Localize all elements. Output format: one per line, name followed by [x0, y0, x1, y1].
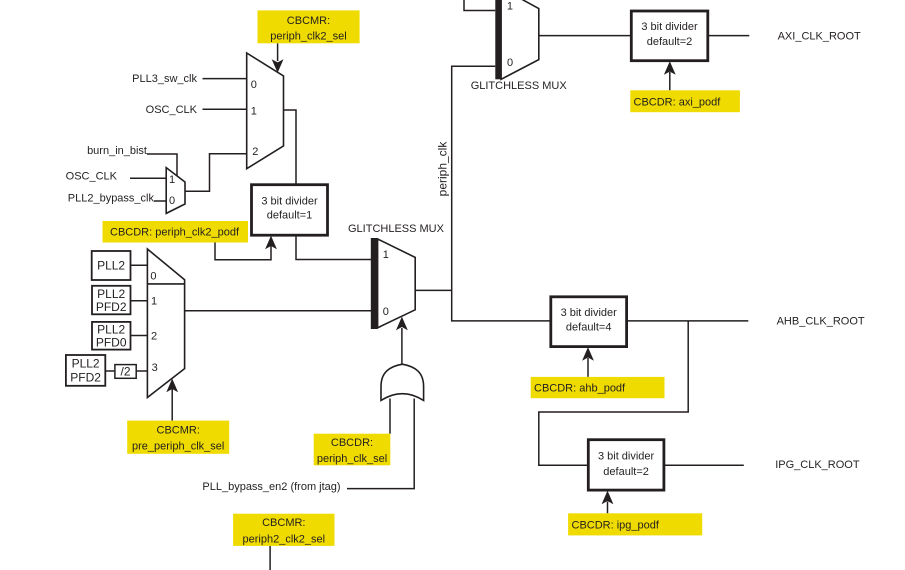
mux U5 top glitchless mux body: [501, 0, 539, 79]
svg-text:periph_clk_sel: periph_clk_sel: [317, 453, 387, 465]
wire periph2_clk2_sel select down: [269, 546, 271, 570]
svg-text:PLL3_sw_clk: PLL3_sw_clk: [132, 73, 197, 85]
svg-text:1: 1: [151, 296, 157, 308]
wire CBCDR axi_podf select arrow shaft: [669, 72, 671, 90]
svg-text:periph2_clk2_sel: periph2_clk2_sel: [243, 534, 326, 546]
divider D4 ipg_podf box: [588, 440, 664, 490]
svg-text:GLITCHLESS MUX: GLITCHLESS MUX: [348, 223, 445, 235]
wire divider periph_clk2_podf output to glitchless mux input 1: [296, 235, 371, 260]
svg-text:CBCDR:: CBCDR:: [331, 437, 373, 449]
mux U3 separator line: [147, 283, 184, 285]
wire PLL2_bypass_clk to bypass mux input 0: [154, 200, 166, 202]
arrowhead into mux U1 from CBCMR periph_clk2_sel: [272, 59, 284, 73]
svg-text:default=2: default=2: [647, 36, 693, 48]
svg-text:1: 1: [383, 249, 389, 261]
svg-text:PLL2: PLL2: [97, 322, 125, 336]
mux U4 select bar: [371, 238, 378, 329]
arrowhead into IPG divider: [602, 491, 614, 505]
svg-text:0: 0: [383, 306, 389, 318]
wire AXI divider output to AXI_CLK_ROOT: [708, 35, 750, 37]
svg-text:GLITCHLESS MUX: GLITCHLESS MUX: [471, 80, 568, 92]
label CBCDR axi_podf (yellow): [630, 90, 740, 112]
label CBCMR pre_periph_clk_sel (yellow): [127, 421, 229, 454]
svg-text:PLL_bypass_en2 (from jtag): PLL_bypass_en2 (from jtag): [202, 481, 340, 493]
wire PLL2 PFD2 to pre_periph mux input 1: [131, 300, 148, 302]
svg-text:0: 0: [251, 79, 257, 91]
svg-text:/2: /2: [120, 365, 130, 379]
arrowhead into mux U4 from OR gate: [396, 317, 408, 331]
svg-text:CBCDR: periph_clk2_podf: CBCDR: periph_clk2_podf: [110, 227, 240, 239]
svg-text:1: 1: [251, 105, 257, 117]
svg-text:AXI_CLK_ROOT: AXI_CLK_ROOT: [778, 30, 861, 42]
svg-text:PFD2: PFD2: [70, 370, 101, 384]
svg-text:1: 1: [507, 0, 513, 12]
arrowhead into AHB divider: [582, 347, 594, 361]
box PLL2 PFD2: [92, 286, 131, 315]
svg-text:2: 2: [252, 146, 258, 158]
svg-text:CBCDR: ahb_podf: CBCDR: ahb_podf: [534, 382, 626, 394]
label CBCDR periph_clk2_podf (yellow): [103, 221, 249, 243]
svg-text:CBCMR:: CBCMR:: [157, 424, 200, 436]
wire pre_periph_clk_sel select arrow shaft: [171, 389, 173, 421]
divider D3 ahb_podf box: [551, 297, 627, 347]
svg-text:pre_periph_clk_sel: pre_periph_clk_sel: [132, 441, 224, 453]
svg-text:CBCMR:: CBCMR:: [287, 15, 330, 27]
svg-text:0: 0: [169, 195, 175, 207]
svg-text:3 bit divider: 3 bit divider: [261, 195, 318, 207]
wire PLL2 PFD0 to pre_periph mux input 2: [131, 335, 148, 337]
label CBCDR ipg_podf (yellow): [568, 513, 702, 535]
wire periph_clk_sel OR gate output to glitchless mux select: [401, 328, 403, 365]
svg-text:3 bit divider: 3 bit divider: [561, 307, 618, 319]
svg-text:0: 0: [507, 57, 513, 69]
svg-text:OSC_CLK: OSC_CLK: [146, 104, 198, 116]
svg-text:3 bit divider: 3 bit divider: [598, 450, 655, 462]
wire AHB divider output to AHB_CLK_ROOT: [627, 320, 749, 322]
wire PLL2 PFD2 to /2 divider: [105, 370, 115, 372]
wire bypass mux output to mux periph_clk2 input 2: [185, 154, 247, 192]
svg-text:3 bit divider: 3 bit divider: [641, 21, 698, 33]
svg-text:1: 1: [169, 174, 175, 186]
wire burn_in_bist to bypass mux select: [147, 154, 177, 176]
svg-text:PFD2: PFD2: [96, 300, 127, 314]
wire PLL2 to pre_periph mux input 0: [131, 264, 148, 266]
label CBCMR periph_clk2_sel (yellow): [258, 10, 360, 43]
svg-text:PLL2_bypass_clk: PLL2_bypass_clk: [68, 192, 155, 204]
wire /2 divider to pre_periph mux input 3: [136, 370, 147, 372]
wire PLL3_sw_clk to mux periph_clk2 input 0: [203, 78, 248, 80]
divider D2 axi_podf box: [631, 11, 708, 61]
arrowhead into AXI divider: [664, 61, 676, 75]
svg-text:IPG_CLK_ROOT: IPG_CLK_ROOT: [775, 459, 860, 471]
svg-text:CBCDR: axi_podf: CBCDR: axi_podf: [634, 96, 722, 108]
box PLL2 PFD2 (lower): [66, 355, 105, 386]
label CBCMR periph2_clk2_sel (yellow): [233, 514, 334, 546]
wire glitchless mux output to periph_clk node: [415, 289, 452, 291]
svg-text:3: 3: [152, 362, 158, 374]
wire CBCMR periph_clk2_sel select arrow shaft: [277, 43, 279, 61]
svg-text:default=4: default=4: [566, 321, 612, 333]
svg-text:default=2: default=2: [603, 466, 649, 478]
wire top glitchless mux input 1 stub: [464, 0, 495, 11]
mux U3 pre_periph_clk_sel (4-input): [147, 249, 184, 398]
arrowhead into mux U3 from CBCMR pre_periph_clk_sel: [166, 379, 178, 393]
divider D1 periph_clk2_podf box: [252, 185, 328, 236]
svg-text:periph_clk2_sel: periph_clk2_sel: [270, 30, 346, 42]
svg-text:burn_in_bist: burn_in_bist: [87, 145, 147, 157]
mux U2 bypass (burn_in_bist): [166, 168, 185, 214]
mux U1 periph_clk2_sel (3-input): [247, 53, 284, 169]
svg-text:PLL2: PLL2: [97, 287, 125, 301]
box PLL2 PFD0: [92, 322, 131, 350]
wire OSC_CLK to bypass mux input 1: [130, 177, 166, 179]
wire OR gate left input from CBCDR periph_clk_sel: [389, 399, 391, 434]
mux U5 select bar: [495, 0, 501, 79]
wire pre_periph mux output to glitchless mux input 0: [185, 310, 371, 312]
wire AHB tap down to IPG divider input: [539, 321, 688, 465]
mux U4 glitchless mux (periph_clk) body: [378, 239, 416, 328]
wire IPG divider output to IPG_CLK_ROOT: [664, 464, 744, 466]
svg-text:0: 0: [150, 270, 156, 282]
wire CBCDR ahb_podf select arrow shaft: [587, 358, 589, 377]
wire OR gate right input from PLL_bypass_en2: [347, 399, 414, 489]
wire CBCDR ipg_podf select arrow shaft: [607, 502, 609, 514]
label CBCDR ahb_podf (yellow): [531, 377, 665, 398]
label CBCDR periph_clk_sel (yellow): [314, 434, 391, 466]
svg-text:PFD0: PFD0: [96, 335, 127, 349]
arrowhead into divider periph_clk2_podf: [265, 236, 277, 250]
wire periph_clk net: glitchless mux out up to top mux input 0 and down to AHB divider: [452, 66, 551, 321]
wire top glitchless mux output to AXI divider: [539, 35, 632, 37]
svg-text:periph_clk: periph_clk: [436, 141, 450, 197]
svg-text:default=1: default=1: [267, 209, 313, 221]
OR gate U6 periph_clk_sel: [381, 364, 424, 400]
svg-text:OSC_CLK: OSC_CLK: [66, 171, 118, 183]
svg-text:AHB_CLK_ROOT: AHB_CLK_ROOT: [777, 315, 865, 327]
box PLL2: [92, 251, 131, 280]
box /2 divider: [115, 365, 136, 379]
wire OSC_CLK to mux periph_clk2 input 1: [203, 108, 248, 110]
svg-text:2: 2: [151, 330, 157, 342]
svg-text:PLL2: PLL2: [72, 357, 100, 371]
svg-text:CBCMR:: CBCMR:: [262, 517, 305, 529]
wire mux periph_clk2 output to divider periph_clk2_podf: [284, 110, 297, 185]
svg-text:CBCDR: ipg_podf: CBCDR: ipg_podf: [572, 519, 660, 531]
wire CBCDR periph_clk2_podf select: [215, 243, 271, 260]
svg-text:PLL2: PLL2: [97, 259, 125, 273]
